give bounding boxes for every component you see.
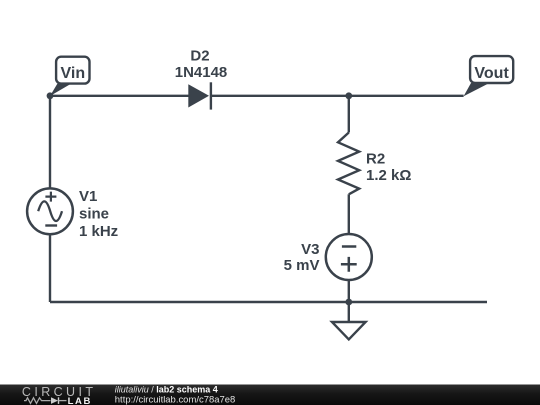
junction dot at Vin node [47,92,54,99]
svg-text:D2: D2 [190,48,209,65]
svg-text:Vin: Vin [60,65,85,82]
svg-text:Vout: Vout [474,65,509,82]
source V1 plus sign [45,192,56,202]
svg-text:5 mV: 5 mV [284,257,320,274]
diode D2 triangle [188,84,209,107]
wire: V3 bottom to bottom rail [348,280,350,302]
svg-text:R2: R2 [366,151,385,168]
wire: V1 bottom to bottom rail [49,234,51,302]
node Vout flag box [470,56,513,83]
source V1 sine wave [38,201,62,221]
wire: node A to Vout flag [349,95,464,97]
wire: top horizontal Vin node to diode anode [50,95,189,97]
svg-text:LAB: LAB [68,396,92,405]
wire: left vertical Vin to V1 top [49,96,51,189]
svg-text:V3: V3 [301,241,319,258]
svg-text:http://circuitlab.com/c78a7e8: http://circuitlab.com/c78a7e8 [115,394,236,405]
svg-text:1N4148: 1N4148 [175,64,228,81]
wire: node A to R2 top [348,96,350,133]
svg-text:V1: V1 [79,188,97,205]
junction dot at ground node [345,299,352,306]
source V3 circle [326,234,372,280]
source V3 plus sign [341,257,357,272]
resistor R2 [338,133,359,195]
node Vin flag pointer [50,84,71,96]
node Vout flag pointer [464,83,490,96]
svg-text:1.2 kΩ: 1.2 kΩ [366,167,411,184]
node Vin flag box [56,57,89,84]
diode D2 cathode bar [210,82,212,109]
logo resistor squiggle [24,398,51,404]
wire: R2 bottom to V3 top [348,194,350,234]
logo diode bar [58,397,60,404]
source V3 minus sign [342,245,356,248]
wire: bottom horizontal rail [50,301,487,303]
footer bar [0,385,540,405]
source V1 circle [27,188,73,234]
logo wire after diode [59,400,67,402]
wire: ground stub [348,302,350,321]
svg-text:1 kHz: 1 kHz [79,223,118,240]
logo diode symbol [51,397,58,404]
wire: diode cathode to node A [211,95,349,97]
source V1 minus sign [45,224,57,226]
junction dot at node A [345,92,352,99]
svg-text:sine: sine [79,205,109,222]
ground symbol [332,322,366,339]
